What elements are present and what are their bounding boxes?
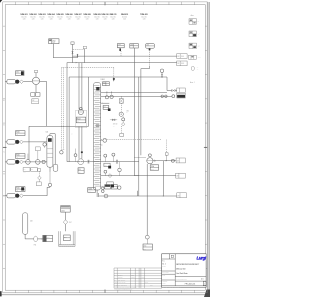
- svg-text:10.0 4.5: 10.0 4.5: [21, 17, 26, 19]
- pump P4403 coupling: [15, 194, 19, 198]
- instrument circle on signal: [60, 151, 63, 154]
- svg-text:10.0 4.5: 10.0 4.5: [30, 17, 35, 19]
- reflux return line: [101, 102, 109, 104]
- svg-text:1.20: 1.20: [86, 19, 89, 21]
- sheet cell: [203, 281, 206, 285]
- pump P4402 label box: [16, 154, 26, 159]
- instrument circle above line2: [104, 170, 107, 173]
- svg-text:10.0 4.5: 10.0 4.5: [75, 17, 80, 19]
- svg-text:1.20: 1.20: [41, 19, 44, 21]
- exchanger box: [119, 99, 123, 104]
- dashed signal turn down: [165, 140, 167, 153]
- centre fold marks: [3, 146, 7, 148]
- pump label box: [150, 165, 158, 170]
- svg-text:10.0 4.5: 10.0 4.5: [141, 17, 146, 19]
- pump P-A coupling dark: [15, 80, 19, 84]
- reflux label box: [103, 106, 109, 110]
- draw-off label box 1: [104, 163, 110, 166]
- svg-text:3L 1: 3L 1: [162, 264, 165, 266]
- corner mark bottom-left: [0, 291, 2, 296]
- pump P4401 body: [7, 140, 16, 144]
- instrument bubbles on condensate line: [105, 96, 108, 99]
- dashed signal drop to arrow: [113, 68, 115, 79]
- stub with instrument: [166, 155, 168, 160]
- pump P4402 discharge diamond: [20, 160, 24, 164]
- svg-text:1W4 009: 1W4 009: [93, 13, 100, 16]
- dashed signal drop x121: [120, 51, 122, 56]
- title block vertical divider: [174, 254, 176, 281]
- pump P4401 coupling: [15, 140, 19, 144]
- reboiler stub: [136, 191, 138, 196]
- pump drain line down: [146, 164, 148, 235]
- pump riser pair: [78, 63, 80, 110]
- pump P-A valve diamond: [20, 80, 24, 84]
- bottoms line to box D3: [99, 195, 177, 197]
- dashed signal line D1: [62, 67, 114, 69]
- interface box C2 dark: [177, 93, 186, 98]
- line to circulation pump: [23, 81, 32, 83]
- svg-text:1W4 004: 1W4 004: [47, 13, 54, 16]
- column side tick: [101, 144, 103, 146]
- svg-text:C4401: C4401: [100, 79, 105, 81]
- main line to interface box A: [73, 55, 177, 57]
- svg-text:P4401: P4401: [16, 132, 20, 134]
- pump ellipse P44: [34, 236, 38, 242]
- svg-text:1W4 002: 1W4 002: [29, 13, 36, 16]
- svg-text:1.20: 1.20: [77, 19, 80, 21]
- scan shadow right edge: [207, 2, 210, 294]
- inline valve: [42, 160, 45, 163]
- long dashed signal line horizontal: [101, 139, 161, 141]
- title block left column rows: [162, 270, 176, 272]
- valve circle c2: [172, 95, 175, 98]
- svg-text:PFD-4401-001: PFD-4401-001: [185, 283, 196, 285]
- drain label box: [36, 182, 41, 186]
- draw-off label box 2: [107, 182, 114, 185]
- pump motor circle: [80, 107, 83, 110]
- instrument circles on draw-off 1: [104, 154, 107, 157]
- svg-text:E44: E44: [103, 82, 106, 84]
- interface box D3: [177, 193, 187, 198]
- process line L2 horizontal: [53, 57, 77, 59]
- dark page corner bottom-right: [204, 290, 210, 297]
- pot outlet: [49, 167, 51, 172]
- check valve mark: [154, 160, 156, 162]
- pump small vent circle: [149, 154, 152, 157]
- svg-text:1.20: 1.20: [123, 19, 126, 21]
- condenser double circle: [119, 112, 123, 116]
- svg-text:10.0 4.5: 10.0 4.5: [84, 17, 89, 19]
- title block outline: [162, 254, 206, 287]
- line to works label: [38, 238, 43, 240]
- svg-text:ZW4: ZW4: [64, 236, 67, 238]
- svg-text:10-4: 10-4: [24, 172, 27, 174]
- pump circle M1: [78, 109, 83, 114]
- actuator box above: [36, 147, 41, 151]
- pump P-A label box: [16, 71, 25, 76]
- inline pump circle 1: [26, 160, 31, 165]
- svg-text:Zeichnungsnummer: Zeichnungsnummer: [176, 278, 187, 280]
- column C4401 shell: [94, 83, 101, 191]
- svg-text:C1C2: C1C2: [151, 169, 154, 171]
- riser with check valve x72.5: [72, 44, 74, 62]
- instrument flag: [83, 46, 86, 48]
- svg-text:201: 201: [118, 46, 120, 48]
- svg-text:1.20: 1.20: [32, 19, 35, 21]
- svg-text:1W4: 1W4: [104, 165, 107, 167]
- line below circulation pump: [35, 85, 37, 93]
- svg-text:P4403: P4403: [77, 119, 81, 121]
- column C4402 packing: [48, 138, 52, 142]
- drawing frame inner border: [5, 5, 205, 291]
- svg-text:1W4: 1W4: [47, 237, 50, 239]
- svg-text:≈: ≈: [72, 134, 73, 136]
- column C4402 shell: [47, 136, 53, 168]
- svg-text:1.20: 1.20: [59, 19, 62, 21]
- drain instrument circle: [145, 235, 149, 239]
- line to box D2: [134, 175, 175, 177]
- small drain box: [38, 169, 41, 172]
- svg-text:1W4 008: 1W4 008: [83, 13, 90, 16]
- label text block: [32, 99, 39, 104]
- svg-text:1.20: 1.20: [104, 19, 107, 21]
- svg-text:1W4 001: 1W4 001: [20, 13, 27, 16]
- svg-text:10.0 4.5: 10.0 4.5: [102, 17, 107, 19]
- package boundary left: [28, 126, 30, 160]
- svg-text:Lurgi: Lurgi: [196, 255, 207, 260]
- P4403 suction line: [23, 195, 47, 197]
- legend symbol ellipse: [191, 66, 194, 70]
- signal stem x134.3: [133, 48, 135, 63]
- corner mark top-left: [0, 0, 2, 3]
- svg-text:1W4 003: 1W4 003: [38, 13, 45, 16]
- pump P4402 coupling: [15, 160, 19, 164]
- sump inner label: [64, 235, 71, 241]
- revision table: [114, 267, 162, 269]
- overhead line: [49, 134, 51, 136]
- valve on draw-off line: [88, 160, 90, 163]
- valve bowtie: [172, 89, 175, 91]
- svg-text:1W4: 1W4: [16, 72, 19, 74]
- svg-text:2001: 2001: [52, 42, 55, 44]
- process line L3: [69, 76, 167, 78]
- svg-text:10.0 4.5: 10.0 4.5: [94, 17, 99, 19]
- svg-text:E: E: [3, 100, 4, 102]
- draw-off valve: [116, 160, 118, 163]
- pump M2 circle: [78, 159, 84, 165]
- drawing frame outer ruler border: [3, 2, 208, 293]
- reboiler small circles: [102, 187, 105, 190]
- svg-text:1.20: 1.20: [68, 19, 71, 21]
- vessel Z4401: [23, 213, 28, 235]
- P4401 discharge line: [23, 141, 47, 143]
- branch circle left: [74, 154, 77, 157]
- svg-text:ZW44: ZW44: [61, 210, 65, 212]
- svg-text:1.20: 1.20: [143, 19, 146, 21]
- svg-text:Z44: Z44: [30, 220, 33, 222]
- draw-off line 2: [101, 175, 139, 177]
- reboiler label boxes: [105, 185, 111, 190]
- stem and flag above: [35, 72, 37, 77]
- pump package bracket: [76, 110, 87, 127]
- instrument tag box 4 rounded: [146, 44, 155, 49]
- vessel outlet line: [24, 234, 26, 239]
- column C4402 trays: [47, 148, 52, 150]
- dashed drop x149.5: [149, 50, 151, 65]
- svg-text:C44: C44: [46, 131, 49, 133]
- svg-text:TW4-201: TW4-201: [140, 13, 147, 16]
- svg-text:2001: 2001: [181, 56, 184, 58]
- svg-text:1W4 010: 1W4 010: [101, 13, 108, 16]
- pump P4403 body: [7, 194, 16, 198]
- Lurgi logo: [196, 255, 206, 261]
- flow arrow on line B: [76, 62, 78, 63]
- dashed instrument drops: [61, 68, 63, 151]
- pump P-A body: [7, 80, 16, 84]
- condensate line from column top: [101, 91, 167, 93]
- svg-text:NORM: NORM: [142, 277, 146, 279]
- svg-text:10.0 4.5: 10.0 4.5: [48, 17, 53, 19]
- svg-text:P4401: P4401: [16, 188, 20, 190]
- svg-text:1.20: 1.20: [23, 19, 26, 21]
- svg-text:B: B: [3, 174, 4, 176]
- svg-text:2W4 012: 2W4 012: [121, 13, 128, 16]
- pump diamond: [63, 220, 68, 225]
- signal stem from tag: [52, 44, 54, 58]
- ruler tick marks: [15, 2, 17, 5]
- small label pair: [31, 93, 35, 97]
- svg-text:C4401: C4401: [88, 189, 92, 191]
- instrument circle on dashed line: [103, 138, 107, 142]
- svg-text:P4401: P4401: [16, 155, 20, 157]
- inline pump circle 2: [36, 160, 41, 165]
- title block row line: [175, 276, 206, 278]
- instrument tag box 2: [117, 44, 124, 48]
- svg-text:20-1: 20-1: [144, 248, 147, 250]
- branch riser pair x67/x69.1: [66, 63, 68, 162]
- svg-text:NETWORK PROCESS PROJECT: NETWORK PROCESS PROJECT: [176, 264, 199, 266]
- instrument tag box FIC-4401: [49, 39, 59, 44]
- column internal block: [96, 124, 100, 127]
- control station lower: [122, 118, 125, 121]
- svg-text:10.0 4.5: 10.0 4.5: [39, 17, 44, 19]
- pump discharge to enclosure: [40, 81, 47, 83]
- drop to cooling water boxes: [166, 77, 168, 91]
- drain label box: [143, 244, 152, 250]
- drop to diamond: [65, 212, 67, 220]
- riser with valve x77.5: [77, 54, 79, 58]
- sump tank hatched walls: [58, 231, 60, 246]
- svg-text:10.0 4.5: 10.0 4.5: [66, 17, 71, 19]
- pump P4404 circle: [147, 158, 153, 164]
- step line to left drop: [149, 66, 151, 69]
- svg-text:P44: P44: [34, 245, 37, 247]
- svg-text:1W4: 1W4: [130, 44, 133, 46]
- svg-text:1.20: 1.20: [50, 19, 53, 21]
- pump P4402 body: [7, 160, 16, 164]
- svg-text:2W4 011: 2W4 011: [109, 13, 116, 16]
- pump P4403 label box: [16, 187, 26, 192]
- svg-text:0 12.05.04 GEZ GEPR: 0 12.05.04 GEZ GEPR: [115, 285, 127, 287]
- svg-text:P44: P44: [78, 169, 81, 171]
- bottoms pot: [53, 164, 58, 171]
- circle between draw-offs: [118, 168, 121, 171]
- svg-text:1W4: 1W4: [52, 40, 55, 42]
- interface box C1: [177, 88, 186, 92]
- P4402 discharge line: [23, 161, 47, 163]
- interface box A: [177, 54, 187, 59]
- column bottom label box: [88, 188, 96, 193]
- draw-off line 1 extended: [67, 161, 139, 163]
- discharge line to box D1: [153, 160, 176, 162]
- svg-text:1W4: 1W4: [144, 246, 147, 248]
- drain diamond: [38, 176, 42, 180]
- dashed link to level instrument: [73, 48, 84, 50]
- svg-text:Gez. 12.05: Gez. 12.05: [162, 272, 168, 274]
- package boundary top: [29, 125, 89, 127]
- svg-text:10.0 4.5: 10.0 4.5: [110, 17, 115, 19]
- long risers to pump: [133, 63, 135, 158]
- scan shadow bottom edge: [0, 294, 210, 295]
- legend symbol box 3: [189, 43, 196, 48]
- small valve symbol: [118, 186, 121, 189]
- works label box: [43, 235, 53, 241]
- column packing dark block: [96, 87, 99, 90]
- branch down from D1 line: [162, 161, 164, 196]
- svg-text:12.05.04: 12.05.04: [118, 274, 123, 276]
- small box on signal drop: [120, 133, 124, 136]
- E-box label: [103, 82, 110, 86]
- valve under condenser: [112, 119, 115, 121]
- legend symbol box 2: [189, 31, 196, 37]
- small signal tick: [63, 148, 65, 150]
- pump P4401 discharge diamond: [20, 140, 24, 144]
- circulation pump circle: [32, 77, 39, 84]
- pump P4401 label box: [16, 131, 26, 136]
- second pump M2 risers: [78, 127, 80, 159]
- dashed drop from exchanger: [120, 103, 122, 111]
- diamond on draw-off 2: [108, 174, 112, 178]
- sump hatch marks: [58, 245, 59, 247]
- interface box D1: [176, 158, 185, 163]
- small instrument box on riser top: [71, 42, 74, 45]
- pump P4403 discharge diamond: [20, 194, 24, 198]
- svg-text:1W4: 1W4: [104, 106, 107, 108]
- instrument circle left: [43, 143, 46, 146]
- svg-text:10.0 4.5: 10.0 4.5: [122, 17, 127, 19]
- pump M2 label box: [78, 168, 84, 174]
- svg-text:ISSUED: ISSUED: [118, 277, 123, 279]
- package boundary right riser: [88, 77, 90, 126]
- svg-text:2002: 2002: [181, 63, 184, 65]
- main line to interface box B: [67, 62, 177, 64]
- column trays: [94, 84, 100, 86]
- svg-text:1W4: 1W4: [118, 44, 121, 46]
- column bottom outlet: [96, 190, 98, 197]
- svg-text:P44: P44: [31, 169, 33, 171]
- outlet valve circle: [48, 183, 51, 186]
- drop to sump: [65, 224, 67, 231]
- svg-text:P4?: P4?: [69, 222, 72, 224]
- valve circle D1: [171, 159, 174, 162]
- svg-text:1.20: 1.20: [96, 19, 99, 21]
- title block top cells: [162, 258, 176, 260]
- svg-text:1W4 006: 1W4 006: [65, 13, 72, 16]
- instrument tag box 3: [130, 44, 139, 48]
- svg-text:10.0 4.5: 10.0 4.5: [57, 17, 62, 19]
- interface box D2: [176, 173, 186, 178]
- bottoms valve circle: [104, 194, 108, 198]
- svg-text:P44: P44: [24, 169, 26, 171]
- svg-text:GEPR: GEPR: [131, 277, 135, 279]
- tag box above sump: [61, 206, 70, 213]
- svg-text:1W4: 1W4: [107, 184, 110, 186]
- pump label box: [76, 117, 86, 123]
- legend symbol box 4: [188, 55, 196, 59]
- page background: [0, 0, 210, 297]
- svg-text:1.20: 1.20: [112, 19, 115, 21]
- svg-text:1W4 20: 1W4 20: [113, 124, 118, 126]
- svg-text:1W4 007: 1W4 007: [74, 13, 81, 16]
- svg-text:1:100: 1:100: [162, 283, 165, 285]
- svg-text:10-4: 10-4: [88, 191, 91, 193]
- interface box B: [177, 61, 187, 66]
- svg-text:1W4: 1W4: [146, 44, 149, 46]
- svg-text:1W4: 1W4: [126, 110, 129, 112]
- filled arrowhead signal end: [113, 78, 115, 81]
- control valve station: [160, 69, 163, 72]
- legend symbol box 1: [189, 19, 196, 24]
- svg-text:1W4 005: 1W4 005: [56, 13, 63, 16]
- labels under line: [23, 168, 30, 172]
